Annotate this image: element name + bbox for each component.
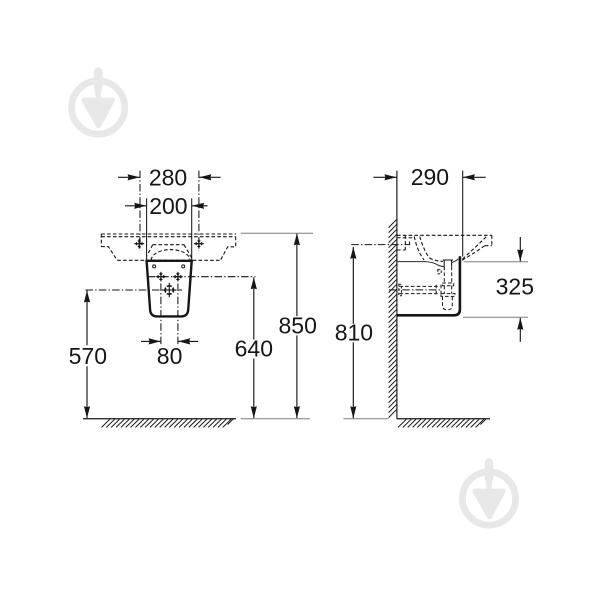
svg-text:640: 640 — [235, 336, 273, 362]
svg-text:325: 325 — [496, 274, 534, 300]
svg-text:200: 200 — [149, 193, 187, 219]
svg-text:850: 850 — [279, 313, 317, 339]
svg-text:80: 80 — [157, 343, 183, 369]
svg-text:810: 810 — [335, 320, 373, 346]
svg-text:570: 570 — [69, 343, 107, 369]
svg-text:290: 290 — [411, 164, 449, 190]
svg-text:280: 280 — [149, 164, 187, 190]
